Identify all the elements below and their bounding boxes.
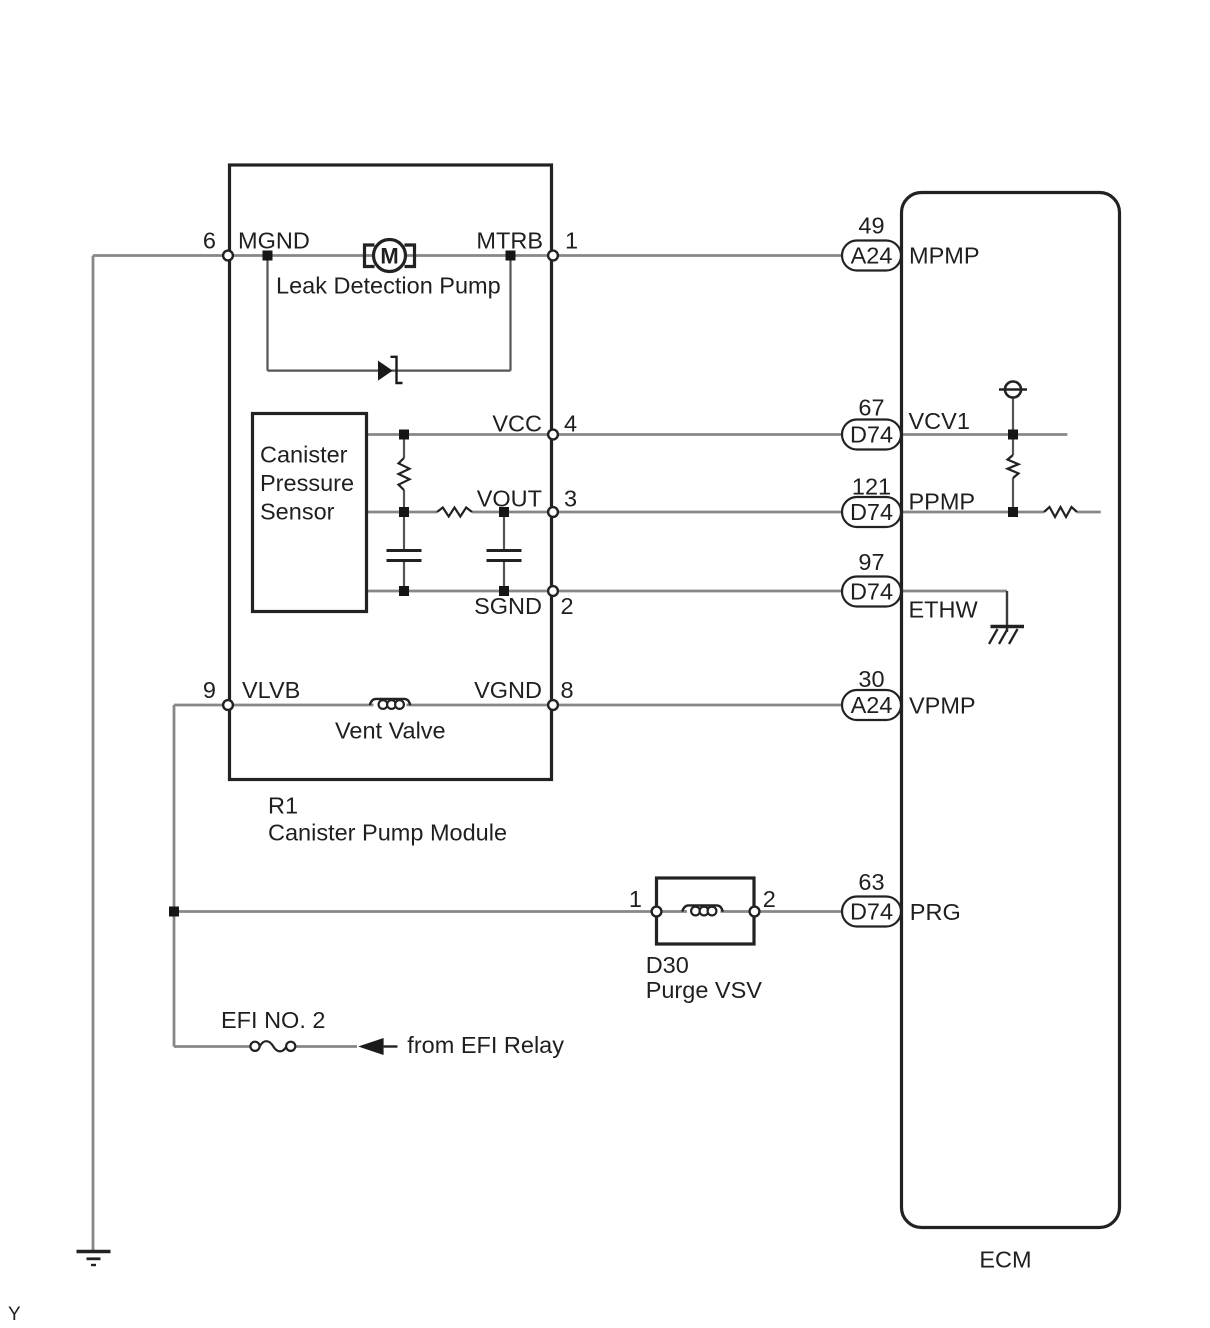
svg-text:D30: D30 — [646, 952, 689, 978]
svg-text:PPMP: PPMP — [909, 489, 976, 515]
svg-text:1: 1 — [565, 228, 578, 254]
svg-text:MPMP: MPMP — [909, 243, 980, 269]
svg-text:PRG: PRG — [910, 899, 961, 925]
svg-text:D74: D74 — [850, 899, 893, 925]
svg-text:3: 3 — [564, 486, 577, 512]
svg-text:67: 67 — [858, 395, 884, 421]
svg-text:ETHW: ETHW — [909, 597, 979, 623]
svg-text:MGND: MGND — [238, 228, 310, 254]
svg-text:D74: D74 — [850, 579, 893, 605]
svg-text:Leak Detection Pump: Leak Detection Pump — [276, 273, 501, 299]
svg-text:ECM: ECM — [979, 1246, 1031, 1272]
svg-text:VCC: VCC — [492, 411, 542, 437]
svg-text:97: 97 — [858, 549, 884, 575]
svg-text:8: 8 — [561, 677, 574, 703]
svg-text:A24: A24 — [851, 243, 893, 269]
svg-text:VLVB: VLVB — [242, 677, 300, 703]
svg-text:MTRB: MTRB — [476, 228, 543, 254]
svg-text:2: 2 — [561, 593, 574, 619]
svg-text:Y: Y — [8, 1304, 21, 1325]
svg-text:EFI NO. 2: EFI NO. 2 — [221, 1007, 325, 1033]
svg-text:M: M — [380, 244, 398, 269]
svg-text:4: 4 — [564, 411, 577, 437]
svg-text:49: 49 — [858, 213, 884, 239]
svg-text:VCV1: VCV1 — [909, 408, 970, 434]
svg-text:D74: D74 — [850, 499, 893, 525]
svg-text:Pressure: Pressure — [260, 470, 354, 496]
svg-text:Purge VSV: Purge VSV — [646, 977, 763, 1003]
svg-text:2: 2 — [763, 886, 776, 912]
svg-text:D74: D74 — [850, 422, 893, 448]
svg-text:SGND: SGND — [474, 593, 542, 619]
svg-text:VOUT: VOUT — [477, 486, 542, 512]
svg-text:from EFI Relay: from EFI Relay — [407, 1032, 564, 1058]
svg-text:63: 63 — [858, 869, 884, 895]
svg-text:Canister Pump Module: Canister Pump Module — [268, 820, 507, 846]
svg-text:Sensor: Sensor — [260, 499, 335, 525]
svg-text:VPMP: VPMP — [909, 692, 976, 718]
svg-text:30: 30 — [858, 666, 884, 692]
svg-text:A24: A24 — [851, 692, 893, 718]
svg-text:Vent Valve: Vent Valve — [335, 718, 446, 744]
svg-text:121: 121 — [852, 474, 891, 500]
svg-text:6: 6 — [203, 228, 216, 254]
svg-text:1: 1 — [629, 886, 642, 912]
svg-text:9: 9 — [203, 677, 216, 703]
svg-text:VGND: VGND — [474, 677, 542, 703]
svg-text:R1: R1 — [268, 793, 298, 819]
svg-text:Canister: Canister — [260, 442, 348, 468]
